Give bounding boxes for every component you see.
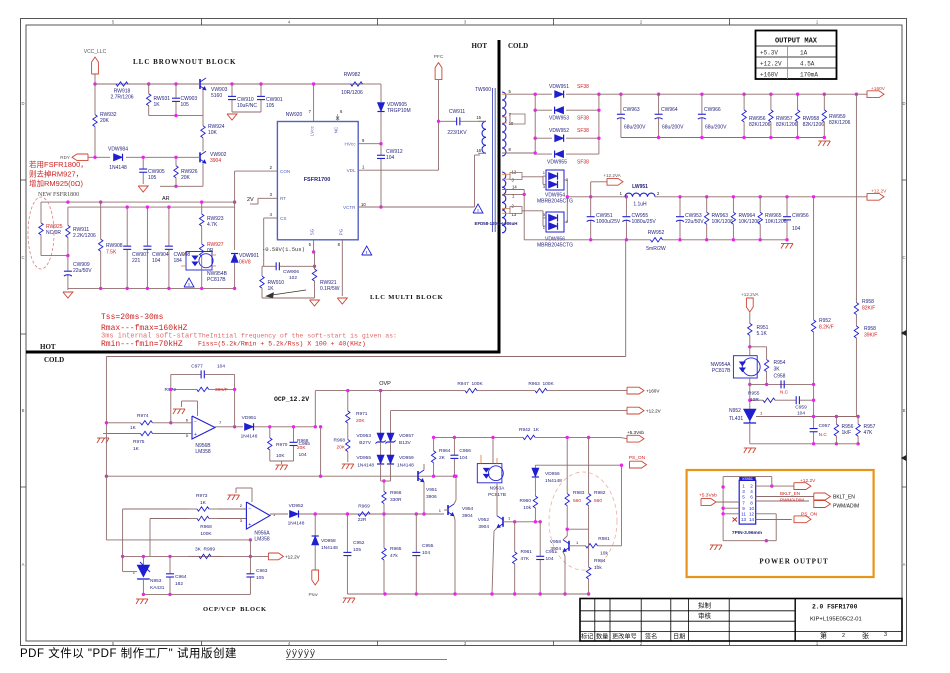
svg-text:12: 12 — [749, 512, 755, 517]
svg-text:−: − — [248, 507, 251, 513]
svg-text:3K R989: 3K R989 — [195, 547, 215, 553]
svg-text:EFD58-120uH-906uH: EFD58-120uH-906uH — [475, 221, 518, 226]
ground bottom rail left — [343, 597, 355, 599]
svg-text:+160V: +160V — [646, 389, 660, 394]
svg-text:14: 14 — [512, 185, 517, 190]
svg-text:HOT: HOT — [40, 343, 56, 351]
svg-text:1N4148: 1N4148 — [357, 463, 374, 469]
svg-text:SF38: SF38 — [577, 128, 589, 134]
svg-text:1K: 1K — [154, 102, 161, 108]
svg-text:10k: 10k — [523, 505, 531, 511]
connector XS951 — [739, 480, 756, 524]
resistor R974 — [122, 422, 140, 424]
resistor R984 — [588, 529, 590, 552]
svg-text:+12.2VA: +12.2VA — [603, 173, 621, 178]
svg-text:170mA: 170mA — [800, 72, 818, 79]
wire R981 to PS_ON column — [614, 545, 622, 547]
svg-text:R964: R964 — [439, 448, 451, 454]
svg-text:13: 13 — [741, 517, 747, 522]
wire HVcc pin9 — [358, 143, 381, 145]
svg-text:CW910: CW910 — [237, 97, 254, 103]
svg-text:2: 2 — [240, 503, 243, 508]
diode VDW984 — [114, 154, 123, 161]
svg-text:20K: 20K — [356, 418, 365, 424]
svg-text:B: B — [22, 408, 25, 413]
diode VD956b — [534, 465, 536, 468]
svg-text:R951: R951 — [757, 325, 769, 331]
svg-text:47K: 47K — [864, 430, 874, 436]
svg-text:SF38: SF38 — [577, 160, 589, 166]
diode VDW951 — [555, 91, 564, 98]
svg-text:第: 第 — [820, 631, 827, 640]
svg-text:560: 560 — [573, 498, 581, 504]
wire KA431 ground rail — [143, 593, 250, 595]
svg-text:+160V: +160V — [760, 72, 778, 79]
svg-text:RW952: RW952 — [648, 230, 665, 236]
svg-text:RW957: RW957 — [776, 116, 793, 122]
capacitor CW904 — [146, 207, 148, 246]
svg-text:RW926: RW926 — [181, 169, 198, 175]
svg-text:104: 104 — [797, 411, 805, 417]
svg-text:LM358: LM358 — [254, 537, 270, 543]
svg-text:1000u/25V: 1000u/25V — [596, 219, 621, 225]
svg-text:104: 104 — [299, 452, 307, 458]
wire VW902 collector — [202, 148, 204, 151]
svg-text:CW955: CW955 — [632, 213, 649, 219]
capacitor CW956 — [786, 197, 788, 217]
svg-text:VDW955: VDW955 — [547, 160, 567, 166]
wire diode left bus — [534, 94, 536, 154]
svg-text:1N4148: 1N4148 — [545, 478, 562, 484]
svg-text:221: 221 — [132, 258, 141, 264]
svg-text:RW924: RW924 — [208, 124, 225, 130]
svg-text:RW927: RW927 — [207, 242, 224, 248]
svg-text:!: ! — [477, 208, 479, 213]
svg-text:1: 1 — [439, 508, 442, 513]
svg-text:CW903: CW903 — [181, 96, 198, 102]
svg-text:R952: R952 — [819, 318, 831, 324]
svg-text:R957: R957 — [864, 424, 876, 430]
svg-text:CW963: CW963 — [623, 107, 640, 113]
svg-text:HOT: HOT — [471, 42, 487, 50]
svg-text:+5.3V: +5.3V — [760, 50, 778, 57]
svg-text:SG: SG — [310, 228, 315, 235]
wire pin11 bend — [756, 513, 777, 515]
svg-text:1N4148: 1N4148 — [109, 165, 127, 171]
wire V952 emitter — [494, 528, 497, 531]
svg-text:5160: 5160 — [211, 93, 222, 99]
svg-text:RW959: RW959 — [829, 114, 846, 120]
svg-text:N956B: N956B — [195, 443, 211, 449]
resistor R973 — [188, 508, 197, 510]
wire +12.2V rail post — [655, 196, 867, 198]
resistor R947 — [456, 390, 465, 392]
capacitor C956b — [453, 437, 455, 454]
wire feedback ground rail — [750, 443, 858, 445]
connector Psw — [312, 570, 319, 585]
zener VD957 — [390, 411, 392, 433]
resistor R955 — [756, 399, 763, 401]
svg-text:82K/1206: 82K/1206 — [803, 122, 825, 128]
svg-text:C956: C956 — [459, 448, 471, 454]
svg-text:10: 10 — [749, 506, 755, 511]
wire sub rail — [149, 115, 203, 117]
svg-text:2: 2 — [657, 191, 660, 196]
ground CW905 — [138, 186, 148, 192]
connector +12.2V small — [268, 553, 283, 560]
wire +12.2V loop — [756, 485, 772, 487]
svg-text:LVcc: LVcc — [310, 125, 315, 136]
svg-text:NC: NC — [334, 126, 339, 133]
capacitor CW912 — [380, 144, 382, 155]
diode VDW905 — [377, 103, 384, 112]
wire R960 to base row — [534, 514, 536, 522]
svg-text:14: 14 — [749, 517, 755, 522]
svg-text:1K: 1K — [133, 446, 140, 452]
svg-text:VDW953: VDW953 — [549, 116, 569, 122]
wire opamp A out — [270, 513, 288, 515]
resistor RW924 — [202, 90, 204, 116]
svg-text:VCTR: VCTR — [343, 205, 356, 210]
svg-text:RW908: RW908 — [106, 243, 123, 249]
svg-text:1: 1 — [620, 191, 623, 196]
resistor RW921 — [314, 252, 316, 269]
wire diode right bus — [566, 93, 599, 95]
tap box 2-13 — [510, 207, 522, 214]
svg-text:7PIN-3.96mm: 7PIN-3.96mm — [732, 530, 762, 536]
svg-text:100K: 100K — [200, 531, 212, 537]
svg-text:3904: 3904 — [478, 524, 489, 530]
svg-text:C: C — [21, 255, 24, 260]
resistor RW918 — [108, 83, 116, 85]
wire V952 base connect — [503, 521, 515, 523]
svg-text:7: 7 — [219, 420, 222, 425]
svg-text:日期: 日期 — [673, 633, 685, 641]
wire CW912 to VCTR — [380, 170, 382, 207]
svg-text:2.0 FSFR1700: 2.0 FSFR1700 — [812, 604, 858, 611]
svg-text:5mR/2W: 5mR/2W — [646, 246, 666, 252]
svg-text:COLD: COLD — [508, 42, 528, 50]
tap box 7-10 — [510, 114, 525, 124]
svg-text:VD955: VD955 — [356, 455, 371, 461]
svg-text:N952: N952 — [729, 408, 741, 414]
watermark underline — [286, 659, 447, 661]
svg-text:R954: R954 — [774, 360, 786, 366]
resistor R960 — [534, 477, 536, 490]
svg-text:7.5K: 7.5K — [106, 249, 117, 255]
connector +12.2V arrow — [794, 483, 811, 490]
capacitor C963 — [249, 556, 251, 573]
svg-text:3K: 3K — [774, 367, 781, 373]
svg-text:330R: 330R — [390, 497, 402, 503]
svg-text:10k: 10k — [594, 565, 602, 571]
svg-text:TL431: TL431 — [729, 416, 743, 422]
capacitor CW955 — [625, 197, 627, 217]
svg-text:22u/50V: 22u/50V — [73, 268, 92, 274]
svg-text:POWER OUTPUT: POWER OUTPUT — [759, 558, 828, 566]
svg-text:13: 13 — [512, 212, 517, 217]
ground KA431 — [136, 598, 148, 600]
svg-text:V952: V952 — [478, 517, 490, 523]
svg-text:10K: 10K — [208, 130, 218, 136]
wire V958 emitter — [563, 552, 565, 556]
svg-text:10R: 10R — [750, 397, 759, 403]
wire LVcc pin7 up — [313, 84, 315, 122]
svg-text:C963: C963 — [256, 568, 268, 574]
svg-text:VDW901: VDW901 — [239, 253, 259, 259]
resistor R972 — [171, 388, 197, 390]
transistor V958 — [568, 541, 570, 551]
svg-text:SF38: SF38 — [577, 84, 589, 90]
svg-text:R963 100K: R963 100K — [528, 381, 554, 387]
svg-text:10k: 10k — [600, 551, 608, 557]
wire rectifier output bus — [564, 179, 567, 181]
capacitor C952 — [346, 514, 348, 552]
svg-text:!: ! — [366, 250, 368, 255]
svg-text:3906: 3906 — [426, 494, 437, 500]
warning triangle OCP — [184, 278, 194, 287]
svg-text:CON: CON — [280, 169, 290, 174]
resistor RW911 — [67, 207, 69, 225]
svg-text:105: 105 — [353, 547, 361, 553]
wire VCC_LLC to rail — [94, 74, 96, 84]
svg-text:1: 1 — [508, 516, 511, 521]
svg-text:MBRB2045CTG: MBRB2045CTG — [537, 243, 573, 249]
svg-text:+: + — [194, 432, 197, 438]
diode VD955 — [380, 442, 382, 455]
op-amp N956B — [192, 416, 215, 439]
svg-text:CW904: CW904 — [152, 252, 169, 258]
svg-text:1N4148: 1N4148 — [321, 545, 338, 551]
title block — [580, 599, 902, 642]
resistor RW952 — [645, 239, 651, 241]
wire +5.3Vsb rail — [434, 436, 521, 438]
wire opto led — [749, 347, 751, 356]
wire +160V sense row — [315, 390, 456, 392]
svg-text:RT: RT — [280, 196, 286, 201]
svg-text:VD956: VD956 — [545, 471, 560, 477]
wire RW982 to VDW905 — [368, 83, 381, 85]
wire RT pin — [258, 197, 277, 199]
svg-text:KIP+L195E05C2-01: KIP+L195E05C2-01 — [810, 617, 862, 623]
wire rail to arrow 5.3Vsb — [567, 436, 620, 438]
svg-text:8: 8 — [750, 500, 753, 505]
svg-text:104: 104 — [459, 455, 467, 461]
shunt regulator N953 KA431 — [142, 556, 144, 565]
svg-text:3904: 3904 — [210, 158, 221, 164]
wire secondary ground return — [625, 240, 627, 357]
svg-text:PWM/ADIM: PWM/ADIM — [780, 498, 804, 503]
wire +12.2V sense row — [391, 410, 628, 412]
svg-text:V951: V951 — [426, 487, 438, 493]
wire PG pin down — [341, 240, 343, 296]
wire bottom ground rail — [347, 593, 589, 595]
capacitor CW908 — [168, 207, 170, 246]
resistor RW925 — [40, 202, 42, 223]
ground 160V — [818, 140, 830, 142]
svg-text:560: 560 — [594, 498, 602, 504]
wire pin15 — [478, 120, 486, 122]
svg-text:NC/0R: NC/0R — [46, 230, 61, 236]
wire TL431 ref row — [756, 416, 858, 418]
svg-text:NW954B: NW954B — [207, 271, 228, 277]
wire OCP up to 160V sense — [314, 391, 316, 427]
op-amp N956A — [246, 502, 270, 529]
svg-text:1N4148: 1N4148 — [241, 434, 258, 440]
wire VCTR pin10 — [358, 206, 474, 208]
svg-text:XS951: XS951 — [742, 477, 753, 481]
svg-text:C957: C957 — [819, 423, 831, 429]
svg-text:RW921: RW921 — [320, 280, 337, 286]
svg-text:+12.2V: +12.2V — [871, 189, 887, 195]
svg-text:06V8: 06V8 — [239, 260, 251, 266]
wire VDL pin — [358, 169, 438, 171]
wire +12.2V rail pre — [591, 196, 625, 198]
svg-text:102: 102 — [289, 275, 297, 281]
svg-text:223/1KV: 223/1KV — [447, 130, 467, 136]
wire VD958 column — [314, 514, 316, 536]
svg-text:39K/F: 39K/F — [215, 387, 228, 393]
svg-text:10R/1206: 10R/1206 — [341, 90, 363, 96]
svg-text:NW954A: NW954A — [710, 362, 731, 368]
zener diode VDW901 — [231, 254, 238, 263]
resistor RW957 — [770, 94, 772, 110]
frame tick arrow right upper — [902, 331, 907, 336]
svg-text:C955: C955 — [422, 543, 434, 549]
svg-text:B: B — [903, 408, 906, 413]
svg-text:4: 4 — [270, 212, 273, 217]
svg-text:Tss=20ms-30ms: Tss=20ms-30ms — [101, 313, 164, 322]
svg-text:R947 100K: R947 100K — [457, 381, 483, 387]
wire PS_ON row — [535, 464, 621, 466]
wire VD951 out — [254, 426, 315, 428]
svg-text:VW903: VW903 — [211, 87, 228, 93]
svg-text:6: 6 — [750, 495, 753, 500]
resistor RW965 — [759, 197, 761, 213]
svg-text:3: 3 — [543, 212, 546, 217]
wire RW925 bottom — [41, 255, 68, 257]
svg-text:104: 104 — [386, 155, 395, 161]
connector +160V — [867, 91, 884, 98]
svg-text:PWM/ADIM: PWM/ADIM — [833, 504, 859, 510]
svg-text:V958: V958 — [550, 539, 562, 545]
svg-text:+12.2V: +12.2V — [646, 409, 662, 414]
ground SG — [310, 300, 320, 306]
wire CS pin — [264, 217, 278, 219]
svg-text:拟制: 拟制 — [698, 601, 712, 610]
capacitor CW910 — [231, 84, 233, 96]
resistor RW959 — [823, 94, 825, 110]
resistor R982 — [588, 437, 590, 470]
svg-text:NW920: NW920 — [286, 112, 303, 118]
wire VDW905 to HVcc — [380, 112, 382, 144]
wire R973 left — [123, 508, 188, 510]
wire R974 left — [106, 422, 122, 424]
svg-text:OUTPUT MAX: OUTPUT MAX — [775, 38, 818, 46]
svg-text:R968: R968 — [200, 524, 212, 530]
warning triangle transformer — [473, 204, 483, 213]
connector +12.2V sense — [627, 407, 644, 414]
capacitor CW966 — [701, 94, 703, 114]
resistor R957 — [857, 417, 859, 425]
wire pin14 1 center tap — [502, 189, 524, 191]
svg-text:R969: R969 — [358, 504, 370, 510]
svg-text:+5.3Vsb: +5.3Vsb — [699, 492, 717, 498]
svg-text:5.1K: 5.1K — [757, 331, 768, 337]
resistor RW958 — [797, 94, 799, 110]
svg-text:3904: 3904 — [550, 546, 561, 552]
transistor VW902 — [199, 152, 201, 162]
wire top rail — [95, 83, 363, 85]
svg-text:RW931: RW931 — [154, 96, 171, 102]
zener VD953 — [380, 391, 382, 433]
ground opamp A — [251, 488, 253, 502]
resistor R958 82K — [855, 298, 857, 303]
POWER OUTPUT box — [687, 470, 874, 577]
svg-text:RW918: RW918 — [114, 89, 131, 95]
svg-text:B13V: B13V — [399, 440, 412, 446]
wire feedback loop right — [234, 374, 236, 426]
svg-text:PFC: PFC — [434, 54, 444, 60]
svg-text:10: 10 — [361, 202, 366, 207]
svg-text:10K: 10K — [276, 453, 285, 459]
wire V958 collector — [566, 529, 568, 536]
svg-text:68u/200V: 68u/200V — [624, 125, 646, 131]
op-amp IC NW920 FSFR1700 box — [277, 122, 358, 240]
optocoupler N951 PC817B — [733, 356, 757, 378]
resistor RW908 — [100, 202, 102, 239]
capacitor CW909 — [67, 256, 69, 271]
svg-text:C959: C959 — [795, 405, 807, 411]
warning triangle LLC — [362, 246, 372, 255]
svg-text:C977: C977 — [191, 364, 203, 370]
resistor R963 — [526, 390, 535, 392]
diode VD951 — [245, 423, 254, 430]
OUTPUT MAX table — [756, 31, 837, 80]
diode pair VDW956 — [546, 212, 564, 232]
svg-text:LLC MULTI BLOCK: LLC MULTI BLOCK — [370, 294, 444, 301]
diode VDW952 — [555, 135, 564, 142]
capacitor C951 — [539, 522, 541, 556]
resistor RW931 — [148, 84, 150, 94]
diode VDW953 — [555, 107, 564, 114]
ground R970 — [276, 464, 288, 466]
wire opto out down — [496, 483, 498, 511]
svg-text:CW911: CW911 — [449, 109, 466, 115]
svg-text:VD959: VD959 — [399, 455, 414, 461]
svg-text:R981: R981 — [598, 536, 610, 542]
svg-text:39K/F: 39K/F — [864, 333, 877, 339]
resistor R965b — [383, 514, 385, 548]
wire V951 collector — [423, 482, 425, 514]
wire cap ground rail — [232, 111, 261, 113]
transformer primary winding — [482, 121, 486, 153]
svg-text:47K: 47K — [521, 556, 530, 562]
resistor R975 — [108, 433, 141, 435]
resistor RW982 — [345, 83, 351, 85]
wire feedback loop left — [170, 374, 172, 422]
diode VDW955 — [555, 151, 564, 158]
svg-text:N.C: N.C — [780, 390, 789, 396]
resistor R968b — [347, 429, 349, 440]
tap box 12-3 — [510, 173, 522, 180]
svg-text:CS: CS — [280, 216, 286, 221]
svg-text:20K: 20K — [297, 445, 306, 451]
svg-text:V954: V954 — [462, 506, 474, 512]
svg-text:20K: 20K — [100, 118, 110, 124]
svg-text:R971: R971 — [356, 411, 368, 417]
capacitor C957 — [813, 417, 815, 429]
